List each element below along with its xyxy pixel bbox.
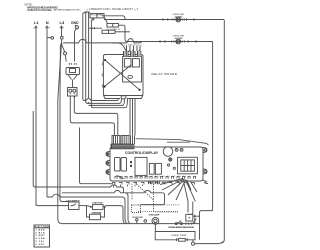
fuse loop rectangle [155, 232, 195, 240]
dark wire segment above board top right [136, 139, 209, 146]
control board text [125, 151, 159, 155]
wire TOD to fuse junction [79, 205, 87, 207]
connector P2 box [107, 24, 119, 28]
colon dots component [130, 161, 132, 167]
ribbon connector rect 1 [112, 136, 120, 145]
legend header text [35, 226, 49, 228]
wire aux small vertical right of L3 [60, 45, 69, 202]
fan wires from board bottom to lower right [160, 179, 197, 202]
svg-text:40W MAX: 40W MAX [175, 37, 184, 40]
legend table box [34, 225, 50, 247]
svg-text:L1 DJB N L2 C: L1 DJB N L2 C [124, 44, 143, 46]
wire diagonal P1 to P2 [104, 16, 108, 23]
svg-text:RELAY BOARD: RELAY BOARD [152, 72, 178, 76]
relay board bottom wire w3 bend [123, 99, 125, 106]
ribbon bundle to control board [130, 99, 135, 136]
line fuse box [87, 205, 107, 210]
TOD switch label [65, 199, 80, 202]
control board left ear 3 [106, 170, 110, 175]
ribbon connector rect 2 [121, 136, 129, 145]
dashed mech link vertical 2 [153, 184, 155, 212]
note text block top-left [25, 3, 82, 12]
label L3 [60, 20, 65, 29]
branch 1 wire (oven light circuit) [104, 19, 224, 21]
svg-text:5 YEL: 5 YEL [36, 241, 46, 243]
dashed mech link vertical [131, 184, 133, 200]
connector P2 label [107, 29, 122, 31]
relay board bottom wire w4 bend [126, 99, 128, 108]
right outer rail [221, 20, 224, 243]
junction dot on L3 wire [60, 43, 62, 45]
wire N vertical [46, 26, 48, 198]
svg-text:P1 CONV FAN: P1 CONV FAN [91, 14, 103, 17]
wire bundle top verticals bending right to relay board [83, 13, 117, 101]
lamp B1 label [173, 14, 186, 18]
drop wires below connectors [114, 185, 143, 188]
arrow connector glyph right [203, 180, 208, 183]
relay board top pin dots [125, 50, 139, 51]
VR component label [69, 63, 78, 66]
label L1 [34, 20, 40, 29]
oven lamp symbol [152, 218, 159, 233]
stub circle off N wire [47, 37, 54, 40]
wire from bundle to P1 [84, 12, 90, 13]
door switch label [133, 217, 143, 219]
ribbon connector rect 3 [131, 136, 135, 145]
ribbon connector hatch block [111, 144, 134, 149]
relay board diagonal brace 1 [105, 60, 140, 90]
left lower rail from N with hump [47, 194, 127, 223]
lamp B2 [176, 39, 181, 44]
right inner rail [212, 42, 214, 211]
relay board top pin group 2 [130, 51, 136, 57]
control board right ear 2 [203, 169, 207, 174]
relay board left edge nubs [102, 63, 104, 87]
svg-text:△ A BRANCH FOR L HOUSE CIRCUIT: △ A BRANCH FOR L HOUSE CIRCUIT △ 2 [86, 8, 139, 11]
wire corner to lamp row left [126, 193, 131, 224]
oven fuse box [87, 206, 105, 220]
oven element switch on rail [175, 221, 191, 225]
receptacle box [68, 88, 78, 97]
switch glyph below relay block [116, 176, 124, 179]
short vertical and diagonal near lamp rail end [192, 215, 196, 225]
relay board small oval component [128, 75, 133, 78]
piezo circle [163, 147, 173, 157]
lamp rail bottom [62, 223, 199, 225]
svg-text:FUSE TEST: FUSE TEST [172, 235, 188, 237]
lamp contact circle [144, 220, 147, 223]
display module inner grid [181, 160, 195, 171]
small rect component 1 [149, 163, 154, 174]
control board right ear 1 [203, 148, 207, 153]
receptacle left wire rail to ribbon [70, 96, 114, 136]
relay board top pin group 3 [137, 51, 142, 57]
receptacle right wire to ribbon area [74, 96, 118, 136]
svg-text:2 BLK: 2 BLK [36, 232, 45, 234]
oven element label [168, 226, 194, 229]
wire L3 vertical top [61, 26, 63, 37]
relay board top pin group 1 [123, 51, 129, 57]
VR component box [66, 68, 80, 75]
junction circle lower on branch to receptacle chain [61, 44, 66, 61]
dashed mech link diagonal [135, 183, 153, 200]
oven fuse label [92, 212, 103, 214]
svg-text:L1: L1 [34, 20, 39, 25]
relay board text [152, 72, 178, 76]
svg-text:RED: RED [60, 28, 65, 30]
wire from P1 upper pin joining branch 1 [102, 16, 127, 20]
svg-text:P4 FC: P4 FC [69, 63, 78, 66]
door switch circle contact [136, 219, 138, 224]
center rect component [135, 157, 147, 175]
tick marks below supply labels [35, 26, 63, 28]
svg-text:3 WHT: 3 WHT [36, 235, 46, 237]
connector P3 box [102, 30, 115, 33]
svg-text:1 2 3 4 5 6 7 8 9 10 11 12 13: 1 2 3 4 5 6 7 8 9 10 11 12 13 14 [131, 176, 186, 178]
connector P1 label [91, 14, 103, 17]
branch 2 wire (lamp circuit) [130, 41, 213, 43]
relay board pin labels [124, 44, 143, 46]
fuse test point circle [191, 240, 222, 245]
control board left ear 1 [106, 152, 110, 157]
lamp B2 label [173, 36, 186, 40]
branch 2 terminal ticks [160, 40, 196, 42]
control board bottom pin labels [131, 176, 186, 178]
relay block A on control board [115, 158, 127, 172]
label N [45, 20, 51, 29]
small rect component 2 [155, 163, 161, 174]
branch 1 terminal ticks [163, 18, 194, 20]
ground terminal circle [75, 25, 79, 33]
junction dot receptacle wire [74, 96, 75, 97]
oven element wire down [188, 202, 193, 215]
svg-text:4 ORN: 4 ORN [36, 237, 45, 240]
relay K2 [133, 59, 140, 67]
label GND [71, 21, 79, 25]
wire fuse junction right [106, 206, 125, 224]
legend rows text [36, 229, 46, 246]
junction circle on L3 [60, 36, 63, 39]
svg-text:OVEN ELEMENT BAKE 2850W: OVEN ELEMENT BAKE 2850W [168, 226, 194, 229]
svg-text:40W MAX: 40W MAX [175, 16, 184, 19]
svg-text:6 GRY: 6 GRY [36, 244, 46, 246]
left return wire outer [33, 111, 123, 193]
relay board diagonal brace 2 [105, 65, 132, 87]
dotted door linkage horizontals [138, 205, 180, 212]
svg-text:OVEN LAMP: OVEN LAMP [149, 214, 161, 217]
connector glyphs below board [112, 183, 195, 185]
door switch dashed box [132, 205, 141, 213]
wire arc entering relay board top left [112, 43, 130, 52]
note text mid-top with triangle symbols [86, 8, 139, 11]
svg-text:GND: GND [71, 21, 79, 25]
line fuse label [93, 203, 104, 205]
lower rail with hump to lamp row [62, 190, 165, 204]
svg-text:SOME NOT ON YOUR MODEL: SOME NOT ON YOUR MODEL [27, 9, 53, 12]
fuse component on loop bottom [177, 238, 188, 241]
relay board pin stubs above [127, 46, 141, 52]
relay board inner module box [123, 57, 142, 83]
relay K1 [124, 59, 131, 67]
relay small box bottom right [186, 214, 193, 221]
control board bottom pin row [115, 176, 196, 179]
svg-text:N: N [46, 20, 49, 25]
left return wire inner tall [80, 128, 114, 184]
control board outline [110, 147, 203, 181]
TOD switch box [69, 202, 80, 210]
small screw circles [168, 149, 184, 170]
wire GND vertical [74, 33, 76, 62]
fuse test label [172, 235, 188, 237]
wire bridge from box to rail [193, 215, 200, 217]
control board left ear 2 [106, 161, 110, 166]
wire L3 continues jog left [58, 39, 63, 223]
wire hump over bundle to branch2 [63, 39, 142, 43]
dense connector block under board [149, 181, 160, 185]
VR funnel wires [68, 75, 78, 88]
wire L1 to TOD [36, 204, 69, 206]
wire from P1 area down to relay w4 [91, 20, 125, 108]
svg-text:WHT: WHT [45, 28, 51, 30]
svg-text:L3: L3 [60, 20, 65, 25]
svg-text:DOOR SW: DOOR SW [133, 217, 143, 219]
relay board outline [103, 55, 143, 100]
relay board bottom wire w1 bend [117, 99, 119, 101]
svg-text:PIN CONN: PIN CONN [35, 226, 49, 228]
wire L1 vertical [35, 26, 37, 206]
svg-text:CONTROL/DISPLAY: CONTROL/DISPLAY [125, 151, 159, 155]
svg-text:1 RED: 1 RED [36, 229, 45, 231]
oven lamp label [149, 214, 161, 217]
inner rail lower bend [200, 211, 213, 240]
connector P1 box top [90, 14, 104, 21]
wire stub P2 to bundle [119, 25, 131, 41]
relay board bottom wire w2 bend [120, 99, 122, 104]
relay board corner dots [104, 59, 141, 91]
svg-text:USE WIRE SUITABLE FOR 90 C: USE WIRE SUITABLE FOR 90 C [53, 9, 81, 12]
display module outer [178, 157, 198, 174]
wire to P3 with ticks [89, 27, 102, 29]
wire stub P3 to bundle [115, 31, 130, 33]
lamp B1 (oven light) [176, 17, 181, 22]
bundle top terminal squares [83, 12, 89, 13]
